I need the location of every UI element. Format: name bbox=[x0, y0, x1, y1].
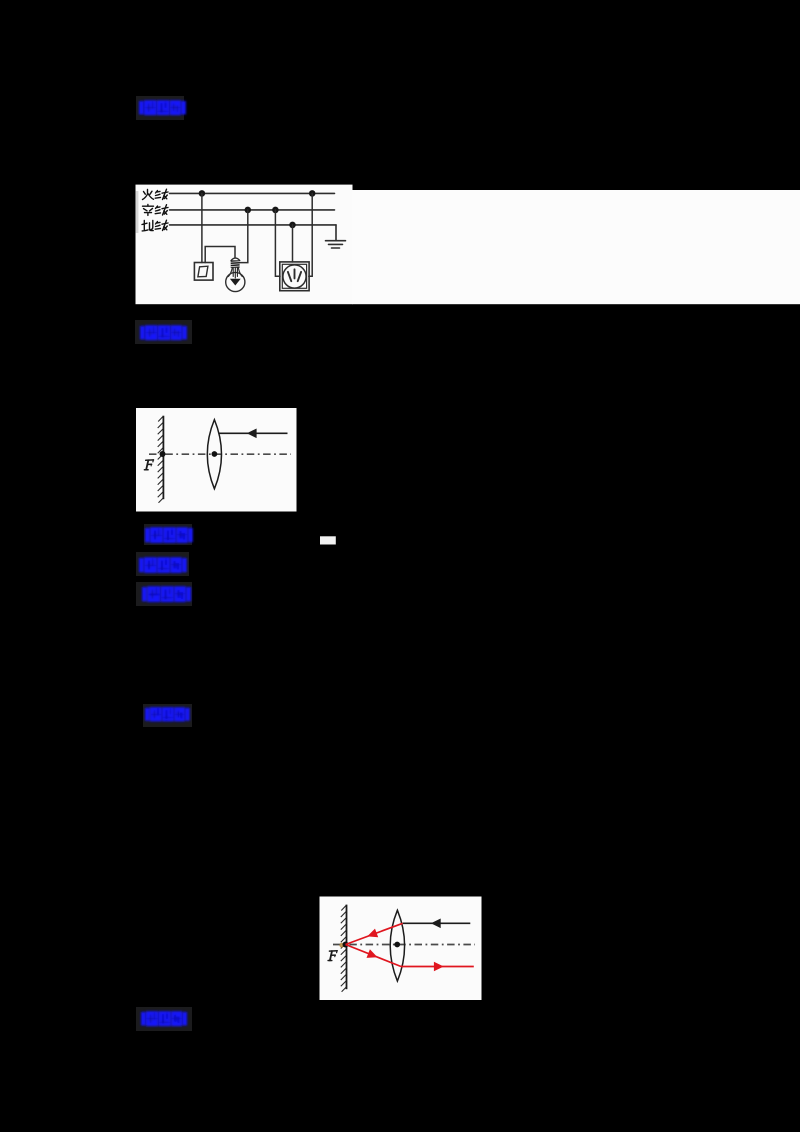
focal point F dot bbox=[343, 942, 349, 948]
scan artifact streak on left edge bbox=[136, 191, 139, 233]
lens centre dot bbox=[212, 451, 218, 457]
label 地线 (earth wire) bbox=[142, 220, 168, 231]
white figure box bbox=[136, 408, 297, 512]
switch rocker bbox=[198, 266, 208, 277]
ground symbol bbox=[326, 241, 346, 248]
orange jpeg artifact near F bbox=[339, 943, 344, 948]
wire earth -> socket top bbox=[292, 225, 294, 262]
red arrowhead on lower ray bbox=[367, 949, 378, 958]
socket face circle bbox=[283, 265, 306, 288]
earth wire bus bbox=[170, 224, 337, 226]
principal axis (dash-dot) bbox=[333, 944, 475, 946]
white dash (blank answer mark) bbox=[320, 536, 336, 544]
F label bbox=[144, 460, 153, 470]
F label bbox=[328, 951, 337, 961]
red refracted ray through F (upper) bbox=[346, 923, 403, 944]
lens centre dot bbox=[394, 942, 400, 948]
socket outer box bbox=[280, 262, 309, 291]
wire neutral -> socket left bbox=[275, 210, 280, 276]
white background strip (full width) bbox=[136, 185, 353, 305]
bulb screw cap bbox=[231, 258, 240, 260]
label 零线 (neutral wire) bbox=[143, 205, 169, 216]
red arrowhead on upper ray bbox=[367, 929, 378, 938]
wire live -> socket right bbox=[309, 193, 312, 276]
convex lens bbox=[207, 420, 221, 489]
wall hatching bbox=[158, 416, 164, 503]
wire live -> switch bbox=[201, 193, 203, 262]
junction dot neutral/bulb bbox=[245, 207, 252, 214]
label 火线 (live wire) bbox=[143, 189, 169, 199]
convex lens bbox=[390, 910, 404, 981]
wall line bbox=[346, 905, 348, 990]
bulb glass bbox=[226, 272, 245, 291]
socket inner box bbox=[282, 264, 306, 288]
junction dot live/socket bbox=[309, 190, 316, 197]
white figure box bbox=[320, 897, 482, 1001]
earth drop to ground symbol bbox=[335, 225, 337, 241]
wire switch -> bulb (L shape) bbox=[205, 247, 235, 263]
incident ray (arrow to the left) bbox=[219, 432, 288, 434]
socket prongs bbox=[294, 269, 296, 278]
switch box bbox=[194, 263, 213, 281]
red exit ray (parallel, arrow right) bbox=[401, 966, 474, 968]
live wire bus bbox=[170, 192, 335, 194]
bulb filament arrow bbox=[233, 268, 237, 278]
junction dot earth/socket bbox=[289, 222, 296, 229]
focal point F dot bbox=[160, 451, 166, 457]
wire neutral -> bulb bbox=[239, 210, 248, 263]
wall line bbox=[162, 416, 164, 500]
red ray from F to lens (lower) bbox=[346, 945, 402, 967]
junction dot neutral/socket bbox=[272, 207, 279, 214]
incident black ray (arrow to the left) bbox=[403, 922, 471, 924]
neutral wire bus bbox=[170, 209, 335, 211]
principal axis (dash-dot) bbox=[149, 453, 291, 455]
junction dot live/switch bbox=[199, 190, 206, 197]
wall hatching bbox=[341, 905, 347, 992]
